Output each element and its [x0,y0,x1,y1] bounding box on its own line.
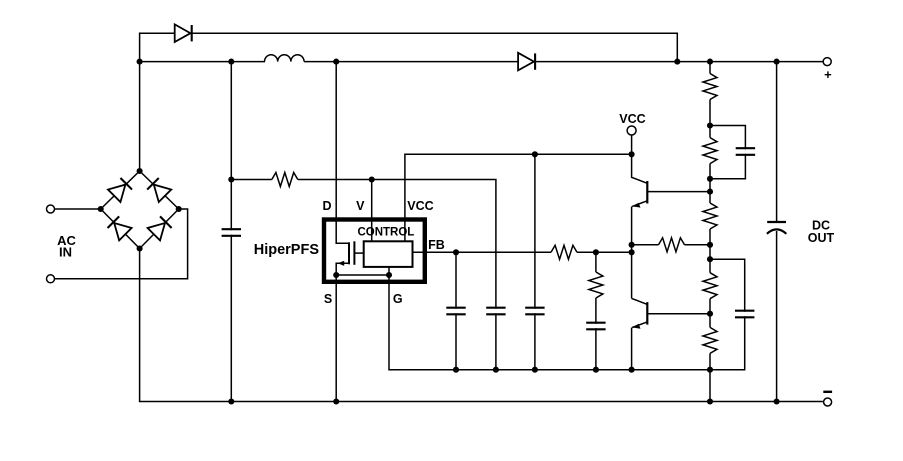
diode BR3 (bridge bottom-left) [107,216,131,240]
capacitor C-vcc [525,308,544,315]
node chain cap2 top [707,256,713,262]
node VCC terminal [627,126,636,135]
svg-text:CONTROL: CONTROL [357,226,414,238]
wire chain seg3 [709,164,711,203]
wire M1 gate lead [354,252,363,254]
capacitor C-rc [586,323,605,330]
transistor Q1 emitter [632,201,647,207]
resistor R5 [703,327,717,353]
wire rectified bus (top main, left of inductor) [140,61,265,63]
wire output cap branch [776,62,778,222]
wire output cap lower [776,231,778,402]
resistor R3 [703,203,717,229]
svg-text:OUT: OUT [808,231,835,245]
wire drain feed [336,62,349,244]
node bus c-fb1 [453,367,459,373]
wire AC line input [54,208,100,210]
svg-text:IN: IN [59,245,72,260]
resistor R-C [589,272,603,298]
transistor M1 gate bar [353,241,355,264]
wire V-divider feed left [231,179,271,181]
capacitor C-ch2 [735,311,754,318]
wire FB left [413,251,552,253]
svg-text:VCC: VCC [407,199,433,213]
wire boost output (top main, right of inductor) [304,61,823,63]
wire chain seg4 [709,229,711,273]
label minus [823,391,832,393]
Q2 emitter arrow [632,324,640,329]
node V-divider tap [228,176,234,182]
wire VCC terminal stem [631,135,633,154]
capacitor C-v1 [486,308,505,315]
Q1 emitter arrow [632,203,640,208]
resistor R1 [703,74,717,100]
wire CONTROL block ground stub [388,267,390,275]
diode BR4 (bridge bottom-right) [148,216,172,240]
wire emitter resistor left [632,244,659,246]
M1 source arrow [338,261,345,266]
wire FB cap branch lower [455,313,457,370]
node bridge top [137,168,143,174]
wire V-pin to cap branch [372,180,496,309]
resistor R-em [659,238,685,252]
resistor R4 [703,273,717,299]
node V pin [369,176,375,182]
transistor Q2 base bar [646,302,648,325]
transistor Q1 base bar [646,181,648,204]
wire chain seg5 [709,299,711,328]
node input cap bottom [228,398,234,404]
wire Q2 base [647,313,710,315]
wire Q1 emitter down [631,206,633,244]
diode BR1 (bridge top-left) [108,178,132,202]
capacitor C-ch1 [736,148,755,155]
svg-text:D: D [322,199,331,213]
svg-text:HiperPFS: HiperPFS [254,242,320,258]
capacitor C-fb1 [446,308,465,315]
wire Q1-Q2 link [631,245,633,299]
svg-text:V: V [356,199,365,213]
node AC neutral terminal [47,275,55,283]
svg-text:+: + [824,67,832,82]
node out cap bottom [774,398,780,404]
node VCC rail [629,151,635,157]
node chain cap1 bottom [707,176,713,182]
wire Q1 base [647,191,710,193]
node chain Q2 base [707,311,713,317]
node input cap top [228,59,234,65]
node out cap top [774,59,780,65]
resistor R2 [703,138,717,164]
node VCC cap tap [532,151,538,157]
node chain Q1 base [707,189,713,195]
transistor Q1 collector [632,154,648,183]
svg-text:G: G [393,292,403,306]
transistor Q2 collector [632,298,648,304]
wire bridge negative to bottom bus [140,249,823,402]
wire bridge arm bottom-right [140,209,179,249]
wire chain seg2 [709,100,711,138]
wire VCC cap branch lower [534,313,536,370]
wire FB cap branch [455,252,457,308]
node chain top [707,59,713,65]
node top rail left [137,59,143,65]
wire G pin to ground bus [389,275,710,370]
wire VCC pin and rail [405,154,632,241]
node bus rc [593,367,599,373]
wire cap branch to gnd bus [495,313,497,370]
wire internal source rail [336,274,389,276]
resistor R-V [272,173,298,187]
wire divider chain top [709,62,711,74]
wire emitter resistor right [685,244,711,246]
wire chain bottom [709,353,711,401]
wire VCC cap branch [534,154,536,308]
node drain top [333,59,339,65]
node source bottom [333,398,339,404]
wire left rail to bridge [139,62,141,171]
wire RC branch upper [595,252,597,272]
wire chain cap2 return [710,316,745,370]
node bypass return [674,59,680,65]
diode D-bypass [175,24,192,42]
node chain em-res [707,242,713,248]
node AC line terminal [47,205,55,213]
transistor Q2 emitter [632,322,647,328]
capacitor C-in [222,229,241,236]
node chain cap1 top [707,122,713,128]
node Q1 emitter [629,242,635,248]
U1 CONTROL block [364,241,413,267]
op-amp U1 HiperPFS package box [324,220,425,282]
wire chain cap1 branch [710,126,745,150]
node FB rc tap [593,249,599,255]
wire bridge arm top-right [140,171,179,209]
capacitor C-out plate top [767,221,786,223]
wire M1 source lead [336,263,349,275]
node chain gnd-bus [707,367,713,373]
wire FB right [577,251,632,253]
node FB cap tap [453,249,459,255]
node chain bottom [707,398,713,404]
node bridge left [98,206,104,212]
wire RC branch lower [595,328,597,370]
wire bridge arm top-left [101,171,140,209]
wire input cap branch upper [230,62,232,231]
node M1 source [333,272,339,278]
wire AC neutral input [54,209,187,279]
svg-text:S: S [324,292,332,306]
wire S pin down [335,275,337,402]
node bridge bottom [137,245,143,251]
diode D-boost [518,53,535,71]
inductor L1 [265,55,305,62]
transistor M1 channel bar [348,242,350,264]
svg-text:VCC: VCC [619,112,645,126]
node DC- terminal [824,398,832,406]
wire Q2 emitter down [631,328,633,370]
node FB end [629,249,635,255]
wire RC branch middle [595,298,597,324]
wire chain cap1 return [710,154,745,179]
capacitor C-out plate bottom curved [767,229,786,233]
diode BR2 (bridge top-right) [147,178,171,202]
wire V-divider feed right [298,179,372,181]
node bus Q2 emitter [629,367,635,373]
wire V pin [371,180,373,242]
node control gnd [386,272,392,278]
node bus c-v1 [493,367,499,373]
wire bridge arm bottom-left [101,209,140,249]
node bridge right [176,206,182,212]
wire bypass diode rail (top) [140,33,678,61]
wire input cap branch lower [230,235,232,402]
node DC+ terminal [823,58,831,66]
wire chain cap2 branch [710,259,745,312]
svg-text:FB: FB [428,238,445,252]
node bus c-vcc [532,367,538,373]
resistor R-FB [551,245,577,259]
